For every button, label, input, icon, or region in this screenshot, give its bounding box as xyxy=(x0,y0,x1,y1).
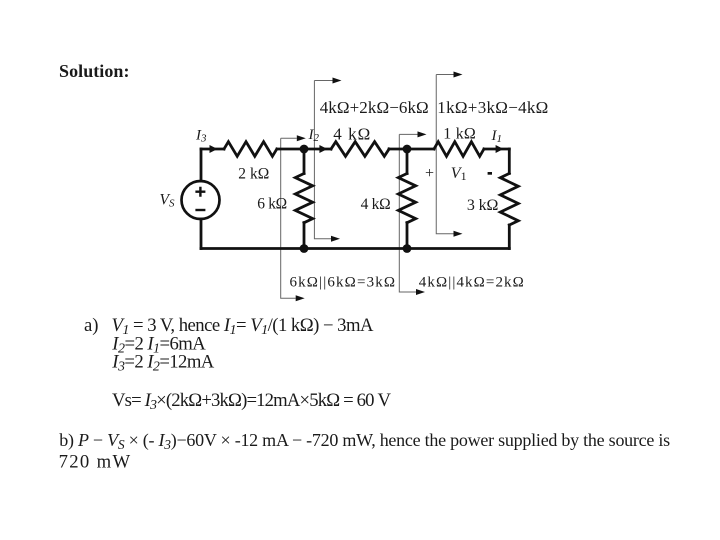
svg-text:V1: V1 xyxy=(451,165,467,183)
svg-text:6kΩ||6kΩ=3kΩ: 6kΩ||6kΩ=3kΩ xyxy=(290,275,396,291)
svg-text:2 kΩ: 2 kΩ xyxy=(238,166,269,183)
svg-text:Solution:: Solution: xyxy=(59,61,130,81)
svg-text:I3=2 I2=12mA: I3=2 I2=12mA xyxy=(111,352,215,375)
svg-text:+: + xyxy=(425,165,434,182)
svg-text:b) P − VS × (- I3)−60V × -12 m: b) P − VS × (- I3)−60V × -12 mA − -720 m… xyxy=(59,430,670,452)
svg-text:6 kΩ: 6 kΩ xyxy=(257,195,287,212)
svg-text:1kΩ+3kΩ−4kΩ: 1kΩ+3kΩ−4kΩ xyxy=(437,98,548,117)
svg-text:I1: I1 xyxy=(491,128,503,145)
svg-text:4 kΩ: 4 kΩ xyxy=(361,196,391,213)
svg-text:Vs= I3×(2kΩ+3kΩ)=12mA×5kΩ = 60: Vs= I3×(2kΩ+3kΩ)=12mA×5kΩ = 60 V xyxy=(112,390,392,413)
svg-text:I3: I3 xyxy=(195,127,207,144)
svg-text:4kΩ+2kΩ−6kΩ: 4kΩ+2kΩ−6kΩ xyxy=(320,98,429,117)
svg-text:a): a) xyxy=(84,315,99,336)
svg-text:4 kΩ: 4 kΩ xyxy=(333,124,370,143)
svg-text:I2: I2 xyxy=(308,127,320,144)
svg-text:VS: VS xyxy=(160,191,175,209)
svg-text:4kΩ||4kΩ=2kΩ: 4kΩ||4kΩ=2kΩ xyxy=(419,275,524,291)
svg-text:720 mW: 720 mW xyxy=(59,451,131,472)
svg-text:3 kΩ: 3 kΩ xyxy=(467,197,499,214)
svg-text:1 kΩ: 1 kΩ xyxy=(443,125,476,142)
